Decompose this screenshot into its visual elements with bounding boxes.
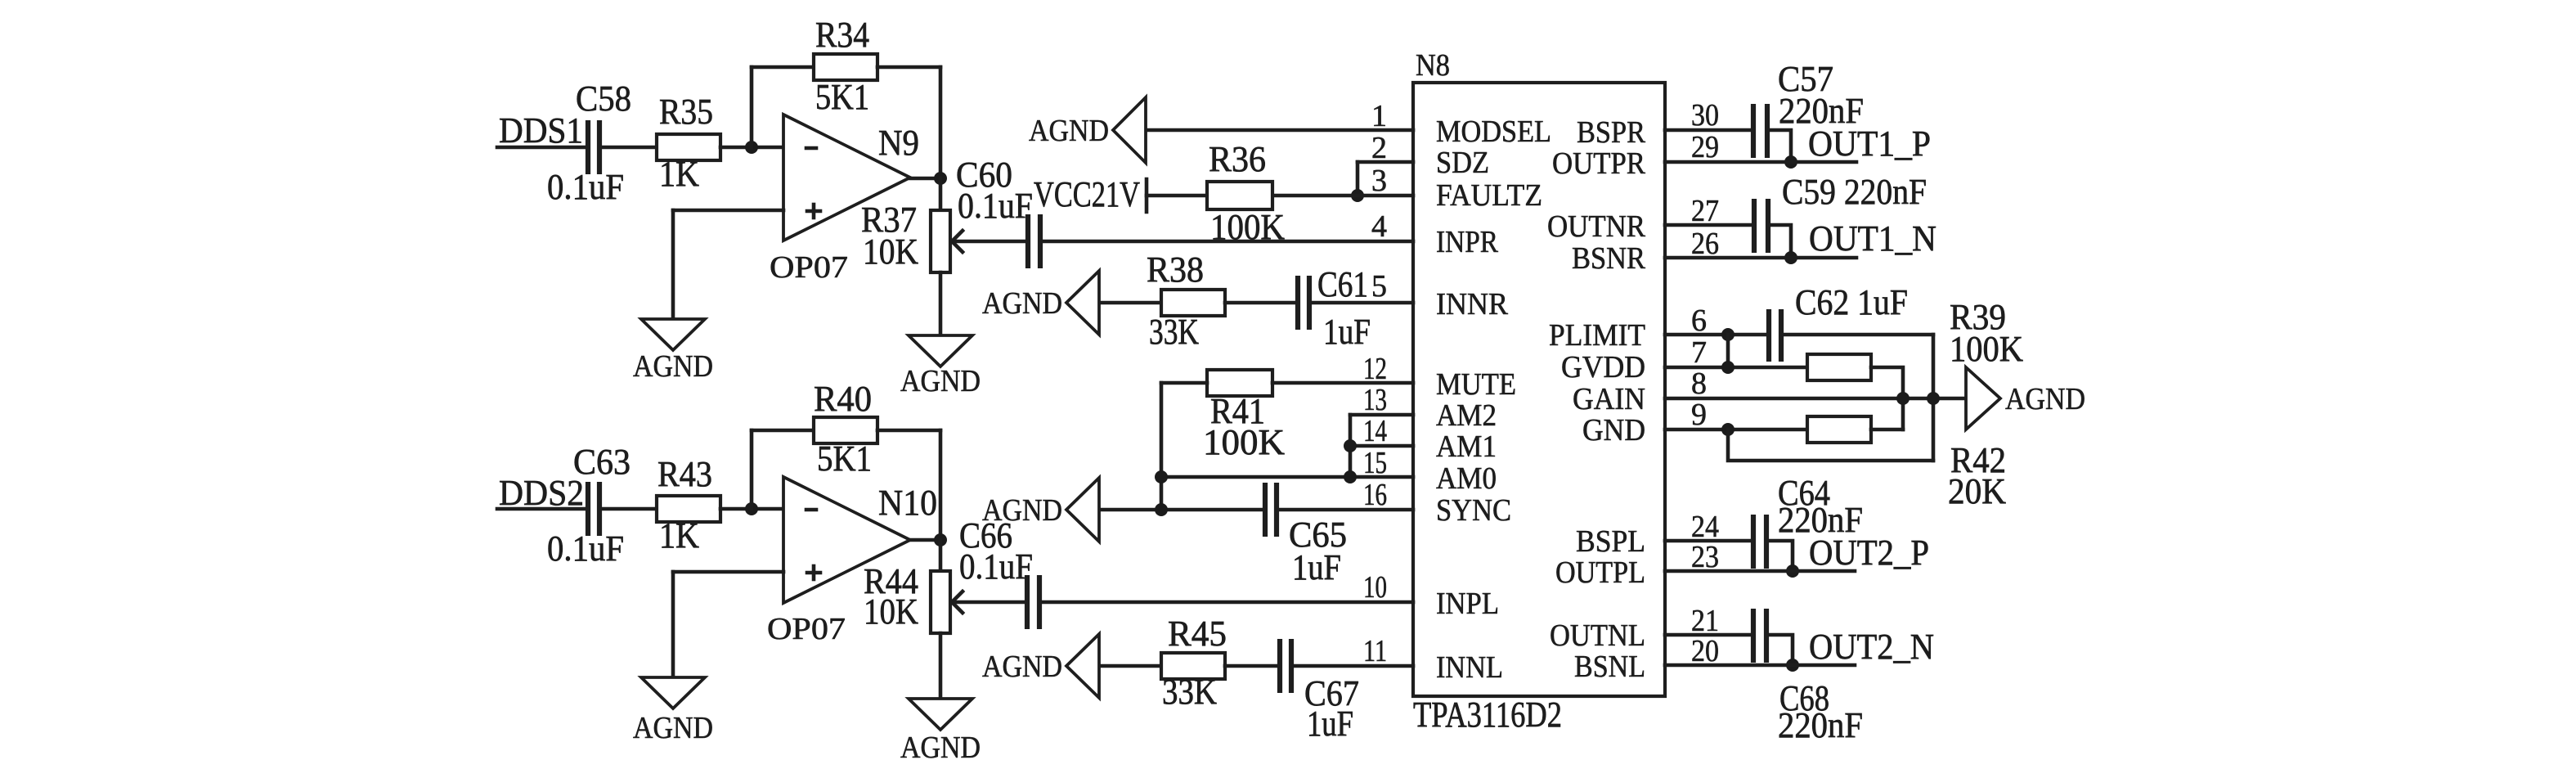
svg-text:PLIMIT: PLIMIT [1549, 318, 1645, 353]
wire N10 non-inverting input [673, 570, 783, 574]
wire pin 2 SDZ horizontal [1358, 160, 1413, 164]
wire down from non-inverting input to ground [671, 210, 675, 319]
svg-text:OUT2_P: OUT2_P [1809, 533, 1929, 573]
svg-text:MUTE: MUTE [1436, 367, 1516, 402]
pin number 23 [1691, 540, 1719, 574]
pin number 11 [1363, 634, 1387, 668]
node junction pin 6 [1721, 328, 1735, 341]
wire pin 27 OUTNR to C59 [1665, 223, 1754, 227]
svg-text:AGND: AGND [982, 286, 1062, 321]
ground AGND below N10 plus input [633, 677, 713, 745]
wire pin 15 AM0 [1161, 475, 1413, 479]
pin number 10 [1363, 570, 1387, 605]
wire pin 26 BSNR to OUT1_N [1665, 256, 1856, 260]
resistor R38 [1147, 250, 1225, 352]
capacitor C58 [547, 79, 631, 207]
node junction pins 2-3 [1351, 189, 1364, 202]
svg-text:4: 4 [1371, 209, 1387, 244]
pin name MUTE [1436, 367, 1516, 402]
wire pin 24 BSPL to C64 [1665, 539, 1753, 543]
svg-text:13: 13 [1363, 383, 1387, 417]
pin number 2 [1371, 131, 1387, 165]
pin name BSPL [1576, 524, 1645, 559]
wire vertical joining pins 13 14 15 [1349, 415, 1353, 477]
wire pin 6 to pin 7 vertical [1726, 335, 1730, 367]
svg-text:9: 9 [1691, 398, 1707, 432]
wire pin 4 INPR from C60 to IC [1040, 240, 1413, 244]
svg-text:33K: 33K [1149, 312, 1199, 352]
pin name OUTNR [1547, 209, 1646, 244]
pin name BSNL [1574, 650, 1645, 684]
capacitor C66 [1027, 575, 1039, 629]
svg-text:7: 7 [1691, 335, 1707, 370]
wire C58 to R35 [599, 146, 657, 150]
svg-text:10: 10 [1363, 570, 1387, 605]
svg-text:0.1uF: 0.1uF [958, 186, 1033, 226]
svg-text:R45: R45 [1168, 614, 1227, 654]
svg-text:14: 14 [1363, 414, 1387, 448]
capacitor C68 [1753, 609, 1863, 745]
wire R37 bottom to ground [939, 272, 943, 335]
wiper arrow of R37 [952, 231, 963, 252]
svg-text:AGND: AGND [900, 364, 981, 398]
wire AGND to R45 [1100, 664, 1161, 668]
svg-text:AM1: AM1 [1436, 429, 1497, 464]
wire pin 14 AM1 [1350, 444, 1413, 448]
svg-text:FAULTZ: FAULTZ [1436, 178, 1542, 213]
pin number 3 [1371, 164, 1387, 198]
wiper arrow of R44 [952, 591, 963, 613]
wire R35 to op-amp inverting input [720, 146, 783, 150]
wire pin 29 OUTPR to OUT1_P [1665, 160, 1856, 164]
svg-text:5K1: 5K1 [815, 77, 869, 117]
capacitor C59 [1754, 172, 1927, 253]
svg-text:OP07: OP07 [767, 612, 846, 646]
svg-text:OUT1_P: OUT1_P [1808, 124, 1931, 164]
pin name PLIMIT [1549, 318, 1645, 353]
capacitor C65 [1265, 483, 1347, 587]
svg-text:C58: C58 [576, 79, 631, 119]
svg-text:C62 1uF: C62 1uF [1795, 282, 1908, 322]
svg-text:OUT1_N: OUT1_N [1809, 218, 1936, 259]
node junction at N10 output [934, 533, 947, 546]
svg-text:29: 29 [1691, 130, 1719, 164]
svg-text:33K: 33K [1162, 672, 1217, 712]
svg-text:C61: C61 [1317, 264, 1368, 304]
svg-text:MODSEL: MODSEL [1436, 115, 1551, 149]
pin name BSPR [1577, 115, 1646, 150]
pin name FAULTZ [1436, 178, 1542, 213]
pin number 14 [1363, 414, 1387, 448]
wire pin 20 BSNL to OUT2_N [1665, 663, 1855, 668]
svg-text:AGND: AGND [982, 493, 1062, 528]
wire pin 4 INPR from wiper to C60 [952, 240, 1028, 244]
wire C57 right bend down to pin 29 [1767, 130, 1791, 162]
wire feedback top right segment N10 [877, 429, 940, 433]
resistor R37 potentiometer [861, 200, 950, 272]
wire AGND to R38 [1100, 301, 1161, 305]
svg-text:GVDD: GVDD [1561, 350, 1645, 385]
pin number 20 [1691, 634, 1719, 668]
svg-text:AGND: AGND [1029, 114, 1109, 148]
ground AGND at pin 1 MODSEL [1029, 97, 1146, 163]
wire C67 to pin 11 INNL [1291, 664, 1413, 668]
wire feedback top left segment [752, 65, 814, 70]
wire pin 12 MUTE right of R41 [1272, 381, 1413, 385]
svg-text:1K: 1K [659, 515, 699, 555]
svg-text:AGND: AGND [633, 349, 713, 384]
svg-text:0.1uF: 0.1uF [547, 528, 624, 569]
resistor R39 [1807, 297, 2023, 380]
svg-text:VCC21V: VCC21V [1034, 174, 1140, 214]
pin number 29 [1691, 130, 1719, 164]
capacitor C63 [547, 442, 631, 569]
svg-text:OUT2_N: OUT2_N [1809, 627, 1934, 667]
svg-text:AM0: AM0 [1436, 461, 1497, 496]
wire C68 right bend down to pin 20 [1766, 635, 1793, 665]
pin number 16 [1363, 478, 1387, 512]
op-amp N10 OP07 [767, 477, 937, 646]
wire pin 7 GVDD to R39 [1665, 366, 1807, 370]
pin name OUTPR [1552, 146, 1646, 181]
svg-text:R36: R36 [1209, 139, 1266, 179]
svg-text:INNR: INNR [1436, 287, 1509, 322]
svg-text:N9: N9 [878, 123, 919, 163]
pin name MODSEL [1436, 115, 1551, 149]
wire feedback left vertical N10 [750, 430, 754, 509]
svg-text:DDS2: DDS2 [499, 473, 584, 513]
node junction pin 9 [1721, 423, 1735, 436]
pin number 9 [1691, 398, 1707, 432]
ground AGND at R45 [982, 634, 1099, 698]
svg-text:INPR: INPR [1436, 225, 1499, 259]
svg-text:OUTNL: OUTNL [1550, 618, 1645, 653]
svg-text:BSNR: BSNR [1572, 241, 1646, 276]
node junction on OUT2_P [1786, 564, 1799, 578]
pin number 7 [1691, 335, 1707, 370]
pin name BSNR [1572, 241, 1646, 276]
svg-text:OUTPL: OUTPL [1555, 555, 1645, 590]
wire feedback left vertical [750, 67, 754, 147]
node junction pin 7 [1721, 361, 1735, 374]
pin name SDZ [1436, 146, 1489, 180]
svg-text:220nF: 220nF [1778, 705, 1863, 745]
wire SYNC AGND to C65 [1100, 508, 1265, 512]
svg-text:BSPL: BSPL [1576, 524, 1645, 559]
pin number 15 [1363, 446, 1387, 480]
wire feedback right vertical down to output [939, 67, 943, 178]
svg-text:10K: 10K [863, 232, 918, 272]
pin name INNR [1436, 287, 1509, 322]
svg-text:0.1uF: 0.1uF [959, 546, 1033, 587]
capacitor C66 label [959, 515, 1033, 587]
op-amp N9 OP07 [770, 115, 919, 285]
pin name AM0 [1436, 461, 1497, 496]
svg-text:100K: 100K [1950, 329, 2023, 369]
node junction pin 8 at R39-R42 vertical [1896, 392, 1910, 405]
pin name OUTPL [1555, 555, 1645, 590]
wire C62 to right vertical [1781, 333, 1933, 337]
svg-text:100K: 100K [1203, 422, 1285, 462]
svg-text:5: 5 [1371, 269, 1387, 304]
svg-text:BSPR: BSPR [1577, 115, 1646, 150]
svg-text:OP07: OP07 [770, 250, 848, 285]
wire feedback top left segment N10 [752, 429, 814, 433]
capacitor C64 labels [1778, 473, 1863, 540]
svg-text:AM2: AM2 [1436, 398, 1497, 433]
pin name SYNC [1436, 493, 1511, 528]
svg-text:20K: 20K [1948, 471, 2006, 511]
svg-text:SYNC: SYNC [1436, 493, 1511, 528]
wire pin 21 OUTNL to C68 [1665, 633, 1753, 637]
wire R44 bottom to ground [939, 633, 943, 699]
capacitor C67 [1280, 639, 1359, 744]
svg-text:R38: R38 [1147, 250, 1204, 290]
wire down from N10 non-inverting input to ground [671, 572, 675, 677]
pin name INNL [1436, 650, 1503, 685]
wire C59 right bend down to pin 26 [1768, 225, 1791, 258]
pin number 4 [1371, 209, 1387, 244]
svg-text:C63: C63 [573, 442, 631, 482]
IC reference designator N8 [1416, 48, 1450, 83]
svg-text:TPA3116D2: TPA3116D2 [1413, 695, 1562, 735]
capacitor C57 [1753, 59, 1864, 158]
pin name GAIN [1573, 382, 1645, 416]
node junction at N9 inverting input [745, 141, 758, 154]
svg-text:1uF: 1uF [1307, 704, 1353, 744]
node OUT2_N [1809, 627, 1934, 667]
svg-text:R43: R43 [657, 454, 712, 494]
svg-text:BSNL: BSNL [1574, 650, 1645, 684]
wire C61 to pin 5 INNR [1309, 301, 1413, 305]
capacitor C60 [1028, 214, 1040, 268]
resistor R40 [814, 379, 877, 479]
svg-text:3: 3 [1371, 164, 1387, 198]
wire N10 output down to R44 [939, 540, 943, 571]
capacitor C61 [1298, 264, 1371, 352]
svg-text:0.1uF: 0.1uF [547, 167, 624, 207]
wire C63 to R43 [599, 507, 657, 511]
wire pin 8 GAIN to AGND [1665, 397, 1966, 401]
op-amp U-N8 TPA3116D2 IC body [1413, 83, 1665, 696]
resistor R36 [1207, 139, 1285, 247]
pin number 12 [1363, 352, 1387, 386]
wire pin 3 FAULTZ [1147, 194, 1413, 198]
wire R43 to op-amp inverting input [720, 507, 783, 511]
resistor R45 [1161, 614, 1227, 712]
svg-text:30: 30 [1691, 98, 1719, 133]
node junction pin 8 at node Y vertical [1927, 392, 1940, 405]
svg-text:N10: N10 [878, 483, 937, 523]
svg-text:16: 16 [1363, 478, 1387, 512]
wire right vertical node Y [1932, 335, 1936, 461]
wire R41 left vertical down to SYNC [1160, 383, 1164, 510]
svg-text:10K: 10K [864, 591, 918, 632]
node OUT1_P [1808, 124, 1931, 164]
wire pin 9 bypass down and right [1728, 429, 1933, 461]
capacitor C64 [1753, 515, 1766, 569]
wire feedback right vertical down to N10 output [939, 430, 943, 540]
svg-text:GND: GND [1582, 413, 1645, 447]
wire DDS1 input to C58 [497, 146, 588, 150]
wire pin 9 GND to R42 [1665, 428, 1807, 432]
svg-text:1uF: 1uF [1292, 547, 1341, 587]
ground AGND below R37 [900, 335, 981, 398]
svg-text:R35: R35 [659, 92, 713, 132]
svg-text:11: 11 [1363, 634, 1387, 668]
pin number 5 [1371, 269, 1387, 304]
svg-text:OUTNR: OUTNR [1547, 209, 1646, 244]
svg-text:C59 220nF: C59 220nF [1782, 172, 1927, 212]
resistor R41 [1203, 370, 1285, 462]
pin name GVDD [1561, 350, 1645, 385]
wire N9 output down to R37 [939, 178, 943, 210]
wire pin 2 to pin 3 vertical [1356, 162, 1360, 196]
resistor R35 [657, 92, 720, 194]
IC part label TPA3116D2 [1413, 695, 1562, 735]
svg-text:INPL: INPL [1436, 587, 1499, 621]
svg-text:SDZ: SDZ [1436, 146, 1489, 180]
node junction AM0 at R41 vertical [1155, 470, 1168, 483]
wire DDS2 input to C63 [497, 507, 588, 511]
ground AGND at R38 [982, 271, 1099, 335]
pin number 6 [1691, 304, 1707, 338]
node junction at N9 output [934, 172, 947, 185]
wire pin 13 AM2 [1350, 413, 1413, 417]
ground AGND below N9 plus input [633, 319, 713, 384]
wire pin 23 OUTPL to OUT2_P [1665, 569, 1855, 573]
svg-text:GAIN: GAIN [1573, 382, 1645, 416]
wire pin 10 INPL from C66 to IC [1039, 600, 1413, 605]
svg-text:N8: N8 [1416, 48, 1450, 83]
svg-text:INNL: INNL [1436, 650, 1503, 685]
wire R39 right bend down [1871, 367, 1903, 429]
svg-text:AGND: AGND [633, 711, 713, 745]
wire C64 right bend down to pin 23 [1766, 541, 1793, 571]
svg-text:AGND: AGND [900, 731, 981, 765]
node OUT2_P [1809, 533, 1929, 573]
wire pin 30 BSPR to C57 [1665, 128, 1753, 133]
node junction SYNC at R41 vertical [1155, 503, 1168, 516]
svg-text:AGND: AGND [982, 650, 1062, 684]
ground AGND at SYNC [982, 478, 1099, 542]
pin number 1 [1371, 99, 1387, 133]
ground AGND below R44 [900, 699, 981, 765]
pin number 21 [1691, 604, 1719, 638]
wire R42 right to vertical [1871, 428, 1903, 432]
pin name OUTNL [1550, 618, 1645, 653]
svg-text:DDS1: DDS1 [499, 110, 583, 151]
svg-text:OUTPR: OUTPR [1552, 146, 1646, 181]
ground AGND right [1966, 367, 2085, 429]
capacitor C62 [1769, 282, 1908, 362]
pin number 24 [1691, 510, 1719, 544]
wire pin 1 MODSEL [1147, 128, 1413, 133]
node junction pin 14 [1344, 439, 1357, 452]
node junction at N10 inverting input [745, 502, 758, 515]
resistor R42 [1807, 416, 2006, 511]
wire C65 to pin 16 SYNC [1277, 508, 1413, 512]
node junction on OUT1_N [1784, 251, 1797, 264]
wire N9 non-inverting input [673, 209, 783, 213]
wire R41 left to vertical [1161, 381, 1207, 385]
node junction pin 15 at vertical [1344, 470, 1357, 483]
svg-text:AGND: AGND [2005, 382, 2085, 416]
pin name AM1 [1436, 429, 1497, 464]
pin number 26 [1691, 227, 1719, 261]
pin name INPL [1436, 587, 1499, 621]
wire pin 10 INPL from wiper to C66 [952, 600, 1027, 605]
wire N9 output to junction [910, 177, 940, 181]
power VCC21V terminal [1034, 174, 1147, 214]
svg-text:1uF: 1uF [1323, 312, 1371, 352]
node junction on OUT1_P [1784, 155, 1797, 169]
resistor R34 [814, 15, 877, 117]
pin number 30 [1691, 98, 1719, 133]
resistor R43 [657, 454, 720, 555]
node DDS1 [499, 110, 583, 151]
wire pin 6 PLIMIT to C62 [1665, 333, 1769, 337]
wire N10 output to junction [910, 538, 940, 542]
svg-text:8: 8 [1691, 367, 1707, 401]
pin number 27 [1691, 194, 1719, 228]
node DDS2 [499, 473, 584, 513]
wire R45 to C67 [1225, 664, 1280, 668]
svg-text:5K1: 5K1 [817, 438, 872, 479]
node junction on OUT2_N [1786, 659, 1799, 672]
wire R38 to C61 [1225, 301, 1298, 305]
resistor R44 potentiometer [864, 561, 950, 633]
pin name GND [1582, 413, 1645, 447]
pin number 13 [1363, 383, 1387, 417]
svg-text:R40: R40 [814, 379, 872, 419]
node OUT1_N [1809, 218, 1936, 259]
pin number 8 [1691, 367, 1707, 401]
pin name INPR [1436, 225, 1499, 259]
svg-text:R34: R34 [815, 15, 869, 55]
pin name AM2 [1436, 398, 1497, 433]
capacitor C60 label [956, 155, 1033, 226]
svg-text:1K: 1K [659, 154, 699, 194]
wire feedback top right segment [877, 65, 940, 70]
